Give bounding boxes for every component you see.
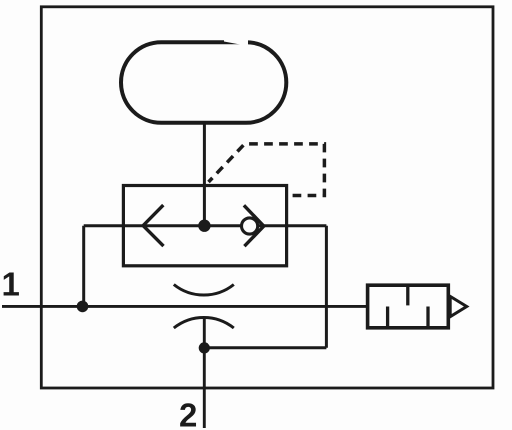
wire centerline: [84, 224, 327, 227]
junction dot valve center: [198, 220, 210, 232]
silencer baffle bottom right: [426, 307, 429, 328]
silencer baffle bottom left: [386, 307, 389, 328]
wire port 2 line: [203, 317, 206, 428]
pilot line (dashed): [209, 144, 325, 196]
check valve seat: [244, 205, 264, 246]
valve body box: [123, 186, 286, 266]
junction dot lower: [199, 342, 210, 353]
enclosure border frame: [41, 7, 493, 388]
throttle upper arc: [174, 285, 234, 296]
silencer body: [368, 285, 449, 328]
check valve ball: [242, 218, 258, 234]
junction dot port 1: [77, 301, 89, 313]
svg-text:2: 2: [179, 397, 197, 430]
capsule stroke gap artifact: [224, 37, 248, 47]
wire capsule-to-valve: [203, 123, 206, 226]
throttle lower arc: [174, 317, 234, 328]
silencer baffle top: [406, 285, 409, 305]
wire right drop: [325, 226, 328, 348]
silencer exhaust triangle: [450, 296, 467, 316]
wire bottom return: [204, 346, 326, 349]
svg-text:1: 1: [2, 266, 20, 303]
flow arrow left: [143, 205, 163, 246]
reservoir (capsule): [121, 42, 286, 123]
wire left drop: [82, 226, 85, 307]
wire port 1 line: [2, 305, 368, 308]
